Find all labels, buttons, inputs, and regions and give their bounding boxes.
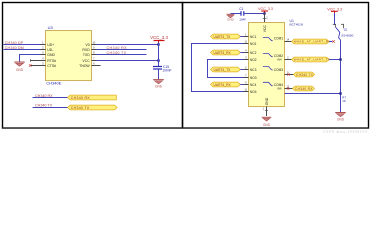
wire cap-vcc bbox=[244, 13, 265, 15]
wire RXD bbox=[97, 49, 147, 51]
svg-text:GND: GND bbox=[155, 85, 163, 89]
U1 pin NO3 bbox=[244, 77, 249, 79]
ground under C15 bbox=[153, 80, 164, 84]
svg-text:NO3: NO3 bbox=[250, 76, 257, 80]
svg-text:UART4_TX: UART4_TX bbox=[214, 68, 232, 72]
U1 pin NO1 bbox=[244, 43, 249, 45]
no-ERC cross CTS# bbox=[29, 64, 32, 67]
junction bbox=[339, 92, 341, 94]
wire V3 net bbox=[97, 44, 159, 46]
U1 pin NC4 bbox=[244, 84, 249, 86]
junction bbox=[157, 43, 159, 45]
svg-text:IN6: IN6 bbox=[277, 87, 282, 91]
port CH340 TX bbox=[68, 105, 118, 110]
lead below C15 bbox=[158, 69, 160, 79]
wire DM bbox=[4, 49, 41, 51]
wire TXD bbox=[97, 54, 147, 56]
junction bbox=[339, 58, 341, 60]
wire loop2 bbox=[208, 60, 244, 78]
svg-text:U3: U3 bbox=[48, 25, 54, 30]
svg-text:CH340E: CH340E bbox=[46, 81, 61, 86]
svg-text:CTS#: CTS# bbox=[47, 64, 56, 68]
wire into Q1 bbox=[334, 13, 336, 25]
transistor Q1 bbox=[333, 24, 344, 28]
svg-text:GND: GND bbox=[227, 18, 235, 22]
svg-text:COM3: COM3 bbox=[274, 68, 283, 72]
RTS# end tick bbox=[30, 59, 32, 61]
svg-text:CSDN @qq_36958104: CSDN @qq_36958104 bbox=[323, 129, 367, 133]
svg-text:NO1: NO1 bbox=[250, 42, 257, 46]
wire loop1 bbox=[192, 44, 244, 92]
junction bbox=[157, 59, 159, 61]
U1 pin NO4 bbox=[244, 91, 249, 93]
port UART4_RX bbox=[211, 82, 241, 87]
svg-text:CH340 RX: CH340 RX bbox=[71, 96, 90, 100]
svg-text:VCC_3.3: VCC_3.3 bbox=[258, 7, 273, 11]
pin TNOW (6) bbox=[92, 65, 101, 67]
svg-text:VCC_3.3: VCC_3.3 bbox=[150, 35, 168, 40]
capacitor C15 bbox=[153, 67, 162, 70]
port CH340 RX right bbox=[293, 86, 315, 91]
port UART4_TX bbox=[211, 67, 241, 72]
svg-text:VCC: VCC bbox=[263, 24, 267, 32]
U1 right pin 12 bbox=[285, 88, 293, 90]
ground under U1 bbox=[262, 117, 272, 121]
svg-text:100nF: 100nF bbox=[162, 69, 171, 73]
ground left bbox=[14, 62, 25, 66]
wire power vertical bbox=[158, 43, 160, 67]
wire bbox=[33, 107, 68, 109]
pin TXD (8) bbox=[92, 54, 97, 56]
svg-text:VCC: VCC bbox=[82, 59, 90, 63]
U1 pin NC1 bbox=[244, 36, 249, 38]
wire gnd-cap bbox=[231, 13, 241, 15]
svg-text:UD-: UD- bbox=[47, 48, 53, 52]
U1 right pin 9 bbox=[285, 74, 294, 76]
pin UD+ (1) bbox=[41, 44, 46, 46]
svg-text:RTS#: RTS# bbox=[47, 59, 56, 63]
svg-text:GND: GND bbox=[47, 53, 55, 57]
svg-text:V3: V3 bbox=[85, 43, 89, 47]
ground top right panel bbox=[227, 14, 235, 17]
COM labels bbox=[274, 37, 283, 91]
pin VCC (7) bbox=[92, 60, 97, 62]
svg-text:1K: 1K bbox=[342, 99, 346, 103]
ground bottom right bbox=[335, 113, 346, 117]
pin CTS# (5) bbox=[31, 65, 46, 67]
svg-text:SS-8050: SS-8050 bbox=[341, 33, 353, 37]
pin GND (3) bbox=[41, 54, 46, 56]
wire DP bbox=[4, 44, 41, 46]
svg-text:CH340 TX: CH340 TX bbox=[71, 106, 90, 110]
svg-text:WAKE_AT_UART_RX: WAKE_AT_UART_RX bbox=[294, 40, 331, 44]
wire VCC bbox=[97, 60, 159, 62]
svg-text:Q1: Q1 bbox=[344, 28, 348, 32]
svg-text:GND: GND bbox=[337, 118, 345, 122]
svg-text:NC2: NC2 bbox=[250, 51, 257, 55]
port UART3_RX bbox=[211, 50, 241, 55]
U1 right pin 2 bbox=[285, 59, 292, 61]
svg-text:COM1: COM1 bbox=[274, 37, 283, 41]
pin UD- (2) bbox=[41, 49, 46, 51]
port CH340 TX right bbox=[294, 72, 315, 77]
svg-text:CH340 TX: CH340 TX bbox=[296, 73, 314, 77]
Q1 emitter wire down bbox=[340, 40, 342, 112]
svg-text:104F: 104F bbox=[239, 18, 246, 22]
switch glyphs bbox=[263, 38, 273, 86]
U1 pin NO2 bbox=[244, 59, 249, 61]
svg-text:NC3: NC3 bbox=[250, 68, 257, 72]
U1 right pin 14 bbox=[285, 41, 292, 43]
svg-text:WAKE_AT_UART_TX: WAKE_AT_UART_TX bbox=[294, 58, 331, 62]
svg-text:BCT401N: BCT401N bbox=[290, 23, 304, 27]
VCC pin into U1 top bbox=[264, 14, 266, 23]
svg-text:CH340 RX: CH340 RX bbox=[295, 87, 313, 91]
port WAKE_AT_UART_TX bbox=[292, 57, 330, 62]
svg-text:IN4: IN4 bbox=[277, 57, 282, 61]
IC U1 body bbox=[249, 23, 285, 107]
U1 pin NC3 bbox=[244, 69, 249, 71]
port UART3_TX bbox=[211, 34, 241, 39]
port CH340 RX bbox=[68, 95, 117, 100]
svg-text:GND: GND bbox=[16, 68, 24, 72]
svg-text:GND: GND bbox=[265, 97, 269, 105]
svg-text:RXD: RXD bbox=[82, 48, 90, 52]
svg-text:UART3_RX: UART3_RX bbox=[214, 51, 232, 55]
pin V3 (10) bbox=[92, 44, 97, 46]
svg-text:TXD: TXD bbox=[83, 53, 90, 57]
svg-text:UART3_TX: UART3_TX bbox=[214, 35, 232, 39]
svg-text:UD+: UD+ bbox=[47, 43, 54, 47]
U1 pin NC2 bbox=[244, 52, 249, 54]
wire bbox=[33, 97, 68, 99]
wire U1 lower right row bbox=[285, 93, 341, 95]
svg-text:UART4_RX: UART4_RX bbox=[214, 83, 232, 87]
junction bbox=[263, 12, 265, 14]
U1 bottom GND pin bbox=[266, 107, 268, 117]
svg-text:NC4: NC4 bbox=[250, 83, 257, 87]
left panel frame bbox=[3, 3, 183, 129]
svg-text:TNOW: TNOW bbox=[79, 64, 90, 68]
pin RXD (9) bbox=[92, 49, 97, 51]
port WAKE_AT_UART_RX bbox=[292, 39, 330, 44]
svg-text:VCC_3.3: VCC_3.3 bbox=[327, 7, 342, 11]
pin RTS# (4) bbox=[31, 60, 46, 62]
svg-text:GND: GND bbox=[263, 123, 271, 127]
svg-text:CH340 TX: CH340 TX bbox=[107, 51, 127, 55]
svg-text:C1: C1 bbox=[239, 7, 243, 11]
svg-text:NO4: NO4 bbox=[250, 90, 257, 94]
bottom shadow line bbox=[2, 127, 369, 129]
right panel frame bbox=[183, 3, 369, 129]
wire GND pin3 bbox=[20, 55, 41, 62]
IC U3 body bbox=[46, 31, 92, 81]
svg-text:NO2: NO2 bbox=[250, 58, 257, 62]
svg-text:NC1: NC1 bbox=[250, 35, 257, 39]
svg-text:COM4: COM4 bbox=[274, 83, 283, 87]
svg-text:CH340 RX: CH340 RX bbox=[107, 46, 128, 50]
